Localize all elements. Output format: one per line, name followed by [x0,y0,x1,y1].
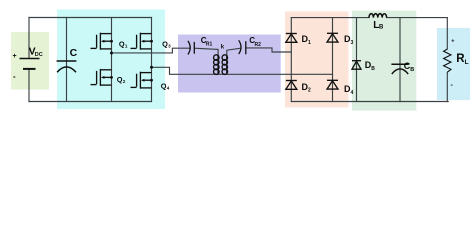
svg-text:k: k [221,45,225,51]
svg-text:-: - [451,82,454,89]
svg-text:-: - [13,72,16,81]
svg-text:R1: R1 [206,42,213,48]
svg-text:C: C [70,47,78,59]
svg-text:1: 1 [308,40,311,46]
svg-text:R2: R2 [255,42,262,48]
svg-text:B: B [410,67,414,73]
svg-text:DC: DC [35,52,43,58]
svg-text:2: 2 [123,79,126,84]
svg-text:L: L [465,59,469,66]
svg-text:3: 3 [168,44,171,49]
svg-text:2: 2 [308,87,311,93]
svg-text:+: + [451,38,454,44]
svg-text:3: 3 [351,40,354,46]
svg-text:+: + [13,53,17,60]
svg-text:4: 4 [167,86,170,91]
svg-text:4: 4 [351,90,354,96]
svg-text:B: B [379,25,384,31]
svg-text:B: B [371,66,375,72]
svg-text:1: 1 [125,44,128,49]
